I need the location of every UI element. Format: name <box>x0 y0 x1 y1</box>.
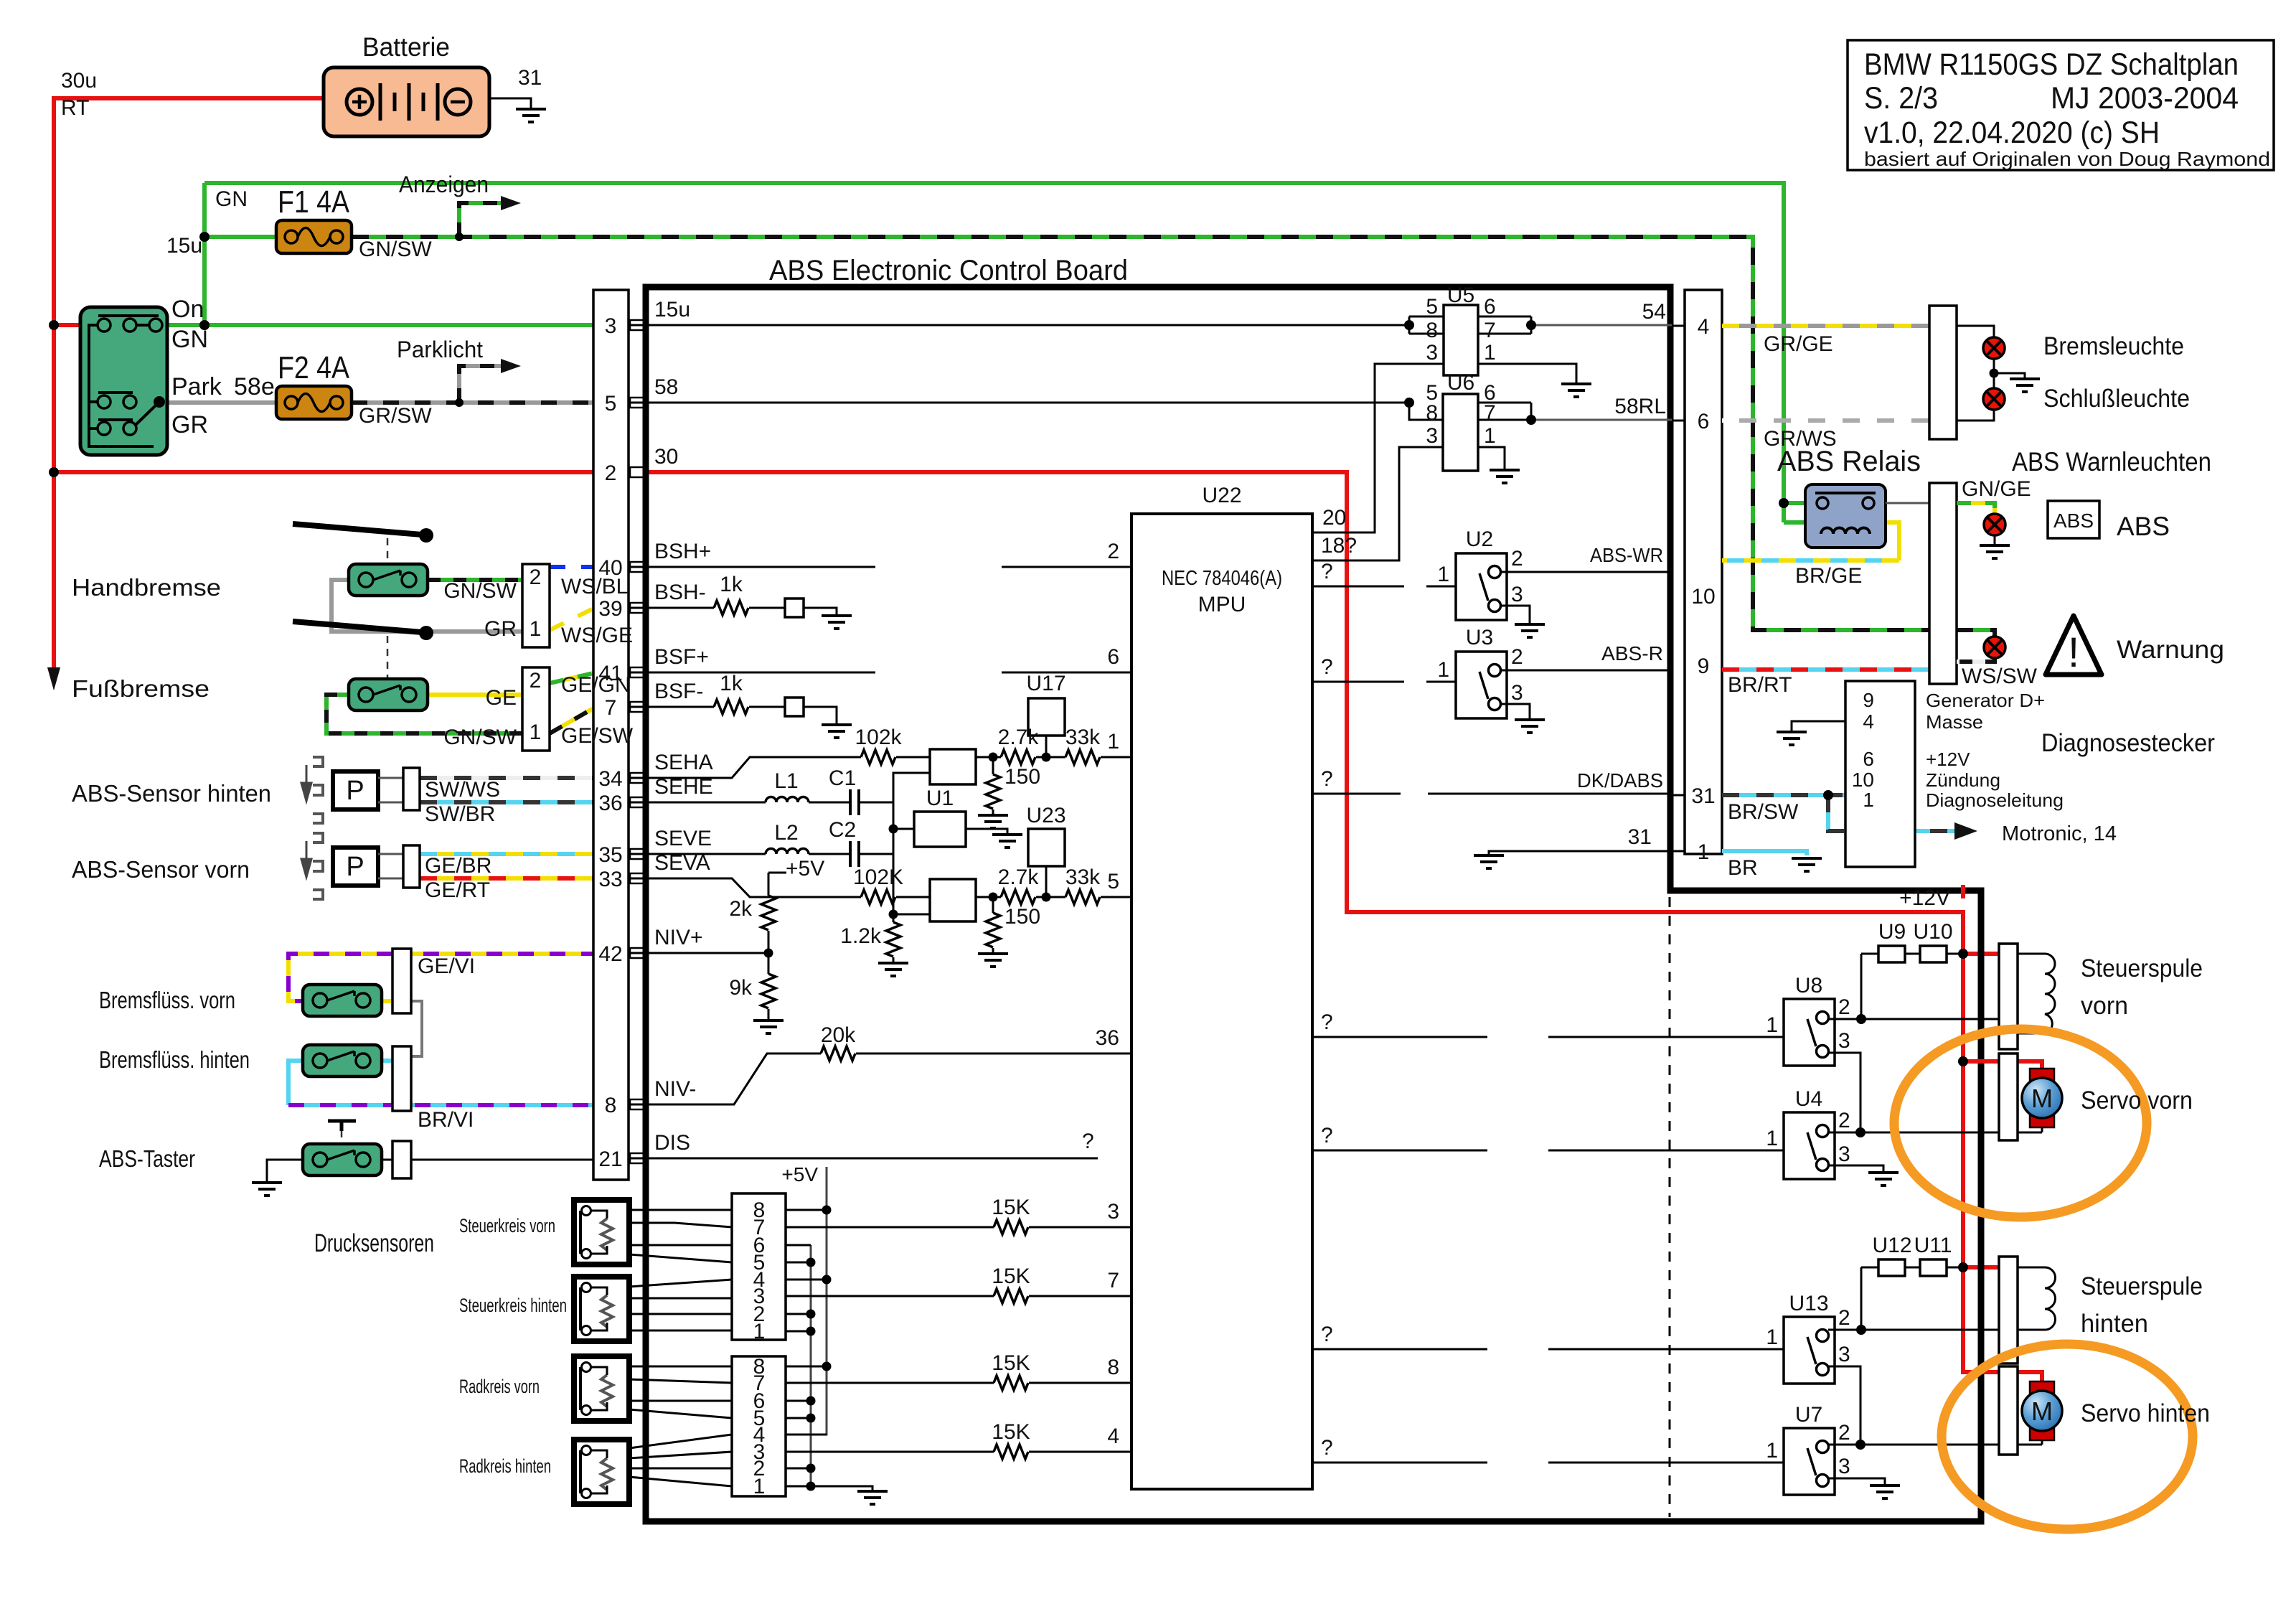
svg-text:RT: RT <box>61 96 89 120</box>
resistor 33k H <box>1065 750 1100 764</box>
wires Radkreis hinten to connector <box>629 1435 732 1486</box>
svg-text:9: 9 <box>1698 654 1710 678</box>
wire U13.3 to U7.2 <box>1828 1366 1860 1445</box>
svg-text:Diagnoseleitung: Diagnoseleitung <box>1926 789 2064 811</box>
wire GN/SW Fussbremse loop <box>326 695 522 733</box>
connector ABS-Taster <box>392 1141 411 1178</box>
lamp Warnung <box>1984 637 2005 658</box>
svg-text:150: 150 <box>1004 765 1040 789</box>
svg-text:34: 34 <box>598 767 622 791</box>
connector ABS-Sensor vorn <box>403 845 420 888</box>
motor Servo vorn <box>2022 1069 2062 1127</box>
svg-text:?: ? <box>1321 560 1333 583</box>
svg-text:WS/GE: WS/GE <box>561 624 633 647</box>
wire GE/RT to pin 33 <box>420 876 629 881</box>
svg-text:Bremsleuchte: Bremsleuchte <box>2043 332 2184 360</box>
battery Batterie <box>324 67 489 136</box>
svg-text:U12: U12 <box>1872 1234 1911 1257</box>
ground 150 H <box>978 815 1008 828</box>
labels U5 U6 U2 U3 right connector <box>1426 283 1715 864</box>
svg-text:18?: 18? <box>1321 534 1357 558</box>
wire ABS-Taster to pin 21 <box>382 1158 629 1160</box>
svg-text:1: 1 <box>1863 789 1874 811</box>
svg-text:102k: 102k <box>855 726 902 749</box>
svg-text:?: ? <box>1321 1323 1333 1346</box>
svg-text:BR/RT: BR/RT <box>1728 673 1792 697</box>
svg-text:1: 1 <box>753 1320 766 1343</box>
svg-text:Motronic, 14: Motronic, 14 <box>2002 822 2117 845</box>
svg-text:SEHE: SEHE <box>654 775 713 799</box>
svg-text:5: 5 <box>605 392 617 416</box>
svg-text:1: 1 <box>530 617 542 641</box>
svg-text:GE/VI: GE/VI <box>418 954 475 978</box>
svg-text:33: 33 <box>598 868 622 891</box>
resistor 15K row2 <box>994 1289 1028 1303</box>
svg-text:2: 2 <box>530 565 542 589</box>
Handbremse lever <box>293 524 422 535</box>
node red arrow down <box>47 667 60 690</box>
wire U7.3 to ground <box>1828 1478 1885 1485</box>
svg-text:+12V: +12V <box>1899 886 1950 910</box>
svg-text:Bremsflüss. hinten: Bremsflüss. hinten <box>99 1046 250 1073</box>
svg-text:U8: U8 <box>1795 974 1822 998</box>
svg-text:Zündung: Zündung <box>1926 769 2000 791</box>
relay ABS Relais <box>1784 484 1886 548</box>
switch U2 <box>1456 553 1507 620</box>
symbol ABS indicator box <box>2048 501 2099 538</box>
connector ABS Warnleuchten 10/11 <box>1929 483 1957 684</box>
ABS-Taster button <box>328 1121 356 1131</box>
wire NIV+ row with divider <box>629 873 786 1020</box>
coil Steuerspule hinten <box>2018 1267 2056 1330</box>
svg-text:F2 4A: F2 4A <box>278 350 350 385</box>
wire red branch Steuerspule hinten <box>1963 1265 1999 1269</box>
wire SEVE row with L2 C2 <box>629 853 893 855</box>
wire GR Handbremse loop <box>331 580 522 632</box>
svg-text:Steuerkreis vorn: Steuerkreis vorn <box>459 1215 555 1236</box>
lamp Bremsleuchte <box>1983 337 2005 359</box>
svg-text:Masse: Masse <box>1926 711 1983 733</box>
resistor U11 <box>1920 1259 1947 1276</box>
svg-text:31: 31 <box>518 66 542 90</box>
wire GN/SW Handbremse switch to connector <box>428 578 522 582</box>
svg-text:S. 2/3: S. 2/3 <box>1864 81 1938 116</box>
wire WS/GE to pin 39 <box>550 609 629 630</box>
svg-text:BSF-: BSF- <box>654 680 703 703</box>
svg-text:BMW R1150GS DZ Schaltplan: BMW R1150GS DZ Schaltplan <box>1864 47 2239 82</box>
svg-text:4: 4 <box>1107 1424 1119 1448</box>
resistor 2k vertical <box>761 896 776 930</box>
svg-text:15K: 15K <box>992 1264 1030 1288</box>
filter block V <box>930 879 976 921</box>
wire ABS-Taster ground side <box>267 1160 303 1183</box>
wire U12 U11 row <box>1861 1267 1963 1269</box>
svg-text:Park: Park <box>171 373 222 400</box>
switch U7 <box>1784 1428 1835 1495</box>
wire U7.2 to servo <box>1828 1440 2042 1445</box>
wire BSH+ row <box>629 566 1131 568</box>
svg-text:42: 42 <box>598 942 622 966</box>
svg-text:20k: 20k <box>821 1023 856 1047</box>
svg-text:Batterie: Batterie <box>362 32 450 62</box>
connector Fussbremse 2/1 <box>522 667 550 751</box>
svg-text:U2: U2 <box>1466 527 1493 551</box>
svg-text:BSF+: BSF+ <box>654 645 709 669</box>
svg-text:Steuerspule: Steuerspule <box>2081 1272 2203 1300</box>
svg-text:U7: U7 <box>1795 1403 1822 1427</box>
svg-text:58RL: 58RL <box>1614 395 1666 418</box>
svg-text:ABS-Sensor vorn: ABS-Sensor vorn <box>72 856 250 883</box>
svg-text:33k: 33k <box>1065 865 1101 889</box>
fuse F1 4A <box>276 220 352 253</box>
svg-text:ABS-Taster: ABS-Taster <box>99 1145 195 1172</box>
svg-text:+5V: +5V <box>781 1163 818 1186</box>
svg-text:2: 2 <box>1511 547 1523 571</box>
wire WS/BL to pin 40 <box>550 565 629 569</box>
ground ABS lamp <box>1994 535 1996 545</box>
svg-text:SEVE: SEVE <box>654 827 712 850</box>
wire GE/SW to pin 7 <box>550 708 629 733</box>
IC U23 <box>1028 829 1065 866</box>
svg-text:F1 4A: F1 4A <box>278 184 350 220</box>
wire GR/SW Parklicht stub <box>459 366 502 403</box>
stub pin 4 <box>1672 325 1685 327</box>
connector board right pins <box>1685 290 1722 854</box>
wire SEVA row <box>629 878 861 897</box>
wire GN/GE to ABS lamp <box>1957 503 1995 514</box>
ground BSF- <box>822 725 852 738</box>
svg-text:?: ? <box>1321 1124 1333 1147</box>
switch U13 <box>1784 1317 1835 1384</box>
svg-text:3: 3 <box>1511 583 1523 606</box>
wire SEHA out chain <box>976 756 1131 759</box>
svg-text:Diagnosestecker: Diagnosestecker <box>2041 729 2215 757</box>
filter block H <box>930 749 976 784</box>
svg-text:ABS-R: ABS-R <box>1601 642 1663 665</box>
svg-text:15u: 15u <box>654 298 690 321</box>
wire MPU to U7.1 <box>1312 1462 1784 1464</box>
node Motronic arrow <box>1954 822 1977 840</box>
switch U8 <box>1784 999 1835 1066</box>
svg-text:GN/SW: GN/SW <box>359 238 432 261</box>
svg-text:1: 1 <box>1107 730 1119 754</box>
svg-text:1: 1 <box>1437 658 1449 682</box>
switch Bremsfluess vorn <box>303 985 382 1016</box>
svg-text:8: 8 <box>605 1094 617 1117</box>
wire MPU to U2.1 <box>1312 586 1456 588</box>
stub pin 31 <box>1672 794 1685 797</box>
wire GN/SW Anzeigen stub <box>459 203 502 237</box>
switch Bremsfluess hinten <box>303 1045 382 1076</box>
svg-text:1: 1 <box>1484 341 1496 365</box>
svg-text:2: 2 <box>1511 645 1523 669</box>
resistor 1k BSH- <box>714 601 748 615</box>
svg-text:15K: 15K <box>992 1351 1030 1375</box>
IC U5 lamp check <box>1409 305 1672 384</box>
svg-text:ABS Electronic Control Board: ABS Electronic Control Board <box>769 255 1128 286</box>
svg-text:SEHA: SEHA <box>654 751 713 774</box>
svg-text:vorn: vorn <box>2081 992 2128 1020</box>
resistor 2.7k V <box>1001 890 1035 904</box>
title box <box>1848 40 2274 170</box>
ground U6.1 <box>1490 470 1520 483</box>
wire BR net 31 inside <box>1489 851 1672 855</box>
svg-text:Parklicht: Parklicht <box>397 337 483 362</box>
svg-text:Radkreis vorn: Radkreis vorn <box>459 1376 540 1397</box>
highlight ellipse Servo vorn <box>1894 1029 2147 1217</box>
svg-text:Servo vorn: Servo vorn <box>2081 1086 2193 1114</box>
switch Fussbremse <box>349 679 428 710</box>
resistor 9k vertical <box>761 974 776 1008</box>
svg-text:Schlußleuchte: Schlußleuchte <box>2043 385 2190 413</box>
svg-text:MJ 2003-2004: MJ 2003-2004 <box>2051 81 2239 116</box>
svg-text:U9: U9 <box>1878 920 1906 944</box>
wire 30u RT red battery feed <box>54 98 324 671</box>
switch ABS-Taster <box>303 1144 382 1175</box>
op-amp U1 <box>914 812 966 847</box>
wire BR/SW to Diagnosestecker <box>1722 795 1956 831</box>
ground sensor rail <box>857 1491 888 1504</box>
wire Bremsleuchte lamp <box>1957 326 2025 421</box>
lamp ABS warn <box>1984 514 2005 535</box>
svg-text:+12V: +12V <box>1926 748 1970 770</box>
wire GR/WS to Schlussleuchte <box>1722 418 1929 423</box>
svg-text:U3: U3 <box>1466 626 1493 649</box>
resistor 102K <box>861 890 895 904</box>
node Anzeigen arrow <box>501 196 521 210</box>
svg-text:2: 2 <box>605 461 617 485</box>
svg-text:?: ? <box>1321 1436 1333 1460</box>
svg-text:1k: 1k <box>720 573 743 596</box>
Fussbremse lever <box>293 621 422 632</box>
fuse F2 4A <box>276 386 352 419</box>
wire 58 row <box>629 402 1409 404</box>
rail ground gray sensors <box>810 1245 812 1486</box>
svg-text:ABS-Sensor hinten: ABS-Sensor hinten <box>72 780 271 807</box>
wire DK/DABS row <box>1312 793 1672 795</box>
svg-text:2.7k: 2.7k <box>998 865 1040 889</box>
svg-text:2: 2 <box>530 669 542 693</box>
svg-text:1k: 1k <box>720 672 743 695</box>
svg-text:SW/WS: SW/WS <box>425 778 500 802</box>
wire GR Park feed <box>164 400 276 405</box>
svg-text:3: 3 <box>1511 681 1523 705</box>
svg-text:Handbremse: Handbremse <box>72 574 221 601</box>
svg-text:Generator D+: Generator D+ <box>1926 690 2045 711</box>
resistor 15K row1 <box>994 1220 1028 1234</box>
svg-text:7: 7 <box>1484 319 1496 342</box>
IC U6 tail lamp check <box>1409 394 1672 471</box>
svg-text:1: 1 <box>753 1475 766 1498</box>
wire GE/BR to pin 35 <box>420 852 629 856</box>
wire relay contact to pin 10 <box>1886 502 1929 504</box>
svg-text:U13: U13 <box>1789 1292 1828 1315</box>
svg-text:?: ? <box>1321 767 1333 791</box>
svg-text:1: 1 <box>1698 840 1710 864</box>
wire GE/GN to pin 41 <box>550 673 629 683</box>
svg-text:9: 9 <box>1863 689 1874 711</box>
svg-text:7: 7 <box>1484 401 1496 425</box>
resistor 1k BSF- <box>714 700 748 714</box>
wire U9 U10 row <box>1861 953 1963 955</box>
connector sensors lower 8..1 <box>732 1356 872 1496</box>
svg-text:2k: 2k <box>729 897 753 921</box>
svg-text:ABS-WR: ABS-WR <box>1590 544 1663 566</box>
svg-text:8: 8 <box>1426 401 1438 425</box>
svg-text:102K: 102K <box>853 865 903 889</box>
IC U17 <box>1028 698 1065 736</box>
svg-text:2: 2 <box>1838 1109 1850 1132</box>
svg-text:2: 2 <box>1838 995 1850 1019</box>
svg-text:?: ? <box>1321 655 1333 679</box>
ground battery 31 <box>516 109 546 122</box>
connector board left pins <box>593 290 629 1180</box>
svg-text:C1: C1 <box>829 766 856 790</box>
wire SEVA out chain <box>976 896 1131 898</box>
connector ABS-Sensor hinten <box>403 768 420 810</box>
ground BR <box>1792 858 1822 871</box>
svg-text:30u: 30u <box>61 69 97 93</box>
svg-text:3: 3 <box>605 314 617 338</box>
svg-text:BR/GE: BR/GE <box>1795 564 1862 588</box>
resistor 2.7k H <box>1001 750 1035 764</box>
svg-text:15K: 15K <box>992 1196 1030 1219</box>
svg-text:7: 7 <box>1107 1269 1119 1292</box>
suppressor square BSH- <box>785 599 804 617</box>
wire GE/VI Bremsfluess vorn loop to pin 42 <box>288 954 629 1001</box>
wire SEHA row <box>629 757 861 778</box>
svg-text:2.7k: 2.7k <box>998 726 1040 749</box>
wire U8.2 to coil row <box>1828 954 1999 1019</box>
connector Handbremse 2/1 <box>522 564 550 647</box>
svg-text:GN/GE: GN/GE <box>1962 477 2031 501</box>
svg-text:+5V: +5V <box>786 857 824 881</box>
wire U4.2 to servo <box>1828 1126 2042 1132</box>
wire red branch Servo vorn <box>1963 1061 2042 1070</box>
svg-text:9k: 9k <box>729 976 753 1000</box>
svg-text:4: 4 <box>1698 315 1710 339</box>
svg-text:8: 8 <box>1107 1356 1119 1379</box>
svg-text:?: ? <box>1321 1010 1333 1034</box>
wire GE Bremsfluess vorn switch out <box>382 999 392 1003</box>
svg-text:58e: 58e <box>234 373 275 400</box>
svg-text:54: 54 <box>1642 300 1666 324</box>
svg-text:Steuerspule: Steuerspule <box>2081 954 2203 982</box>
svg-text:ABS Warnleuchten: ABS Warnleuchten <box>2012 447 2211 477</box>
resistor U12 <box>1878 1259 1905 1276</box>
ground U3.3 <box>1515 720 1545 733</box>
ground BSH- <box>822 616 852 629</box>
lamp Schlussleuchte <box>1983 388 2005 410</box>
wire BR/RT to warn lamp 11 <box>1722 667 1929 672</box>
svg-text:GR/GE: GR/GE <box>1764 332 1833 356</box>
svg-text:31: 31 <box>1691 784 1715 808</box>
ground ABS-Taster <box>252 1183 282 1196</box>
svg-text:6: 6 <box>1698 410 1710 433</box>
svg-text:BSH-: BSH- <box>654 581 706 604</box>
stub pin 1 <box>1672 850 1685 853</box>
sensor ABS-Sensor vorn <box>301 833 378 899</box>
inductor L1 <box>766 797 809 802</box>
svg-text:GN/SW: GN/SW <box>443 579 517 603</box>
svg-text:Fußbremse: Fußbremse <box>72 675 210 702</box>
svg-text:U23: U23 <box>1026 804 1065 827</box>
svg-text:NIV-: NIV- <box>654 1077 696 1101</box>
svg-text:BR/VI: BR/VI <box>418 1108 474 1132</box>
resistor 33k V <box>1065 890 1100 904</box>
svg-text:ABS: ABS <box>2117 512 2170 541</box>
resistor 15K row4 <box>994 1445 1028 1459</box>
MPU U22 <box>1131 514 1312 1489</box>
svg-text:30: 30 <box>654 445 678 469</box>
sensor Drucksensor Radkreis vorn <box>574 1356 629 1421</box>
wires Radkreis vorn to connector <box>629 1366 732 1418</box>
resistor 1.2k vertical <box>893 914 895 963</box>
svg-text:10: 10 <box>1691 585 1715 609</box>
capacitor C2 <box>850 841 859 867</box>
connector Steuerspule vorn <box>1999 944 2018 1049</box>
wire U2.3 to ground <box>1500 606 1530 624</box>
svg-text:WS/SW: WS/SW <box>1962 665 2038 688</box>
switch Handbremse <box>349 564 428 596</box>
sensor Drucksensor Steuerkreis vorn <box>574 1200 629 1264</box>
svg-text:DK/DABS: DK/DABS <box>1577 769 1663 792</box>
svg-text:1: 1 <box>530 721 542 744</box>
svg-text:5: 5 <box>1107 870 1119 893</box>
ground U4.3 <box>1868 1173 1899 1186</box>
wire 15u row <box>629 324 1409 327</box>
svg-text:3: 3 <box>1838 1343 1850 1366</box>
svg-text:Warnung: Warnung <box>2117 636 2224 664</box>
svg-text:15K: 15K <box>992 1420 1030 1444</box>
motor Servo hinten <box>2022 1381 2062 1440</box>
svg-text:Servo hinten: Servo hinten <box>2081 1399 2210 1427</box>
svg-text:6: 6 <box>1484 295 1496 319</box>
ground U7.3 <box>1870 1485 1900 1498</box>
svg-text:33k: 33k <box>1065 726 1101 749</box>
labels right side <box>1728 47 2270 1478</box>
resistor 102k <box>861 750 895 764</box>
svg-text:U17: U17 <box>1026 672 1065 695</box>
svg-text:1: 1 <box>1484 424 1496 448</box>
connector pin tabs left <box>630 320 644 1163</box>
capacitor C1 <box>850 789 859 815</box>
labels top left <box>61 32 542 438</box>
svg-text:GR/SW: GR/SW <box>359 404 432 428</box>
svg-text:U22: U22 <box>1202 484 1241 507</box>
svg-text:basiert auf Originalen von Dou: basiert auf Originalen von Doug Raymond <box>1864 148 2270 170</box>
resistor U9 <box>1878 946 1905 962</box>
wire U3.3 to ground <box>1500 704 1530 720</box>
svg-text:3: 3 <box>1838 1029 1850 1053</box>
wire GN fuse F1 feed <box>204 235 276 239</box>
svg-text:8: 8 <box>1426 319 1438 342</box>
svg-text:40: 40 <box>598 556 622 580</box>
switch U3 <box>1456 652 1507 718</box>
wire U4.3 to ground <box>1828 1165 1883 1173</box>
connector Bremsfluess vorn <box>392 949 411 1013</box>
wire MPU to U4.1 <box>1312 1150 1784 1152</box>
svg-text:1: 1 <box>1766 1013 1778 1037</box>
wire BR/GE relay coil return <box>1722 558 1899 563</box>
svg-text:GE/BR: GE/BR <box>425 854 491 878</box>
svg-text:ABS Relais: ABS Relais <box>1777 446 1921 477</box>
connector sensors upper 8..1 <box>732 1193 827 1340</box>
resistor 20k <box>821 1046 855 1061</box>
wire SEHE row with L1 C1 <box>629 802 893 804</box>
svg-text:GE/SW: GE/SW <box>561 724 634 748</box>
wire red branch Steuerspule vorn <box>1963 952 1999 956</box>
